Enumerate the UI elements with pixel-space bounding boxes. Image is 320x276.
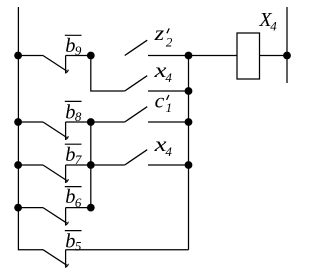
contact b8 tick [66,136,68,139]
node: right bus / z2 [185,52,193,60]
wire b6 out [66,207,91,209]
node: left bus / b8 [14,118,22,126]
contact b7 blade [43,165,67,181]
node: terminal / coil out [283,52,291,60]
label z2' [153,23,173,49]
wire x4 bottom row [91,164,125,166]
wire sub-bus B [90,122,92,208]
contact b7 riser [65,165,67,183]
contact b6 blade [43,208,67,224]
label x4 top [153,60,172,85]
contact b9 riser [65,56,67,74]
contact b6 tick [66,222,68,225]
svg-text:c: c [155,90,165,112]
svg-text:6: 6 [75,195,82,210]
wire b7 out [66,164,91,166]
wire x4 bottom out [148,164,189,166]
contact b9 [18,55,43,57]
contact c1 blade [125,107,148,122]
node: right bus / x4 bottom [185,161,193,169]
node: right bus / c1 [185,118,193,126]
wire coil right [260,55,288,57]
svg-text:8: 8 [75,109,82,124]
svg-text:7: 7 [75,152,82,167]
svg-text:4: 4 [165,144,172,159]
svg-text:2: 2 [166,34,173,49]
contact x4 bottom blade [125,150,148,165]
contact b9 blade [43,56,67,72]
contact b5 tick [66,264,68,267]
wire b5 out [66,249,189,251]
node: sub-bus / b9 out [87,52,95,60]
label b9 [65,35,82,58]
contact b7 tick [66,179,68,182]
svg-text:4: 4 [270,19,277,34]
contact b5 blade [43,250,67,266]
right terminal line [286,7,288,83]
contact x4 top blade [125,76,148,91]
svg-text:z: z [153,23,164,45]
contact b5 riser [65,250,67,268]
wire b8 out [66,121,91,123]
contact b8 [18,121,43,123]
left bus [18,7,43,250]
label x4 bottom [153,134,172,159]
wire b9 out [66,55,91,57]
node: sub-bus / b7 out [87,161,95,169]
node: left bus / b6 [14,204,22,212]
contact b7 [18,164,43,166]
label b8 [65,101,82,124]
wire coil left [189,55,238,57]
wire c1 row [91,121,125,123]
svg-text:1: 1 [166,100,173,115]
node: left bus / b7 [14,161,22,169]
label X4 coil [258,9,277,33]
node: right bus / x4 top [185,87,193,95]
svg-text:4: 4 [165,70,172,85]
contact z2 blade [125,40,148,55]
label b5 [65,231,82,254]
label c1' [155,90,172,114]
coil X4 [237,33,260,79]
contact b8 blade [43,122,67,138]
wire sub-bus A [91,56,125,92]
wire c1 out [148,121,189,123]
node: sub-bus / b6 out [87,204,95,212]
contact b9 tick [66,70,68,73]
node: sub-bus / b8 out [87,118,95,126]
label b7 [65,144,82,167]
label b6 [65,186,82,210]
svg-text:5: 5 [75,238,82,253]
right bus [188,56,190,250]
wire x4 top out [148,90,189,92]
contact b6 [18,207,43,209]
contact b6 riser [65,208,67,226]
svg-text:9: 9 [75,43,82,58]
node: left bus / b9 [14,52,22,60]
wire z2 out [148,55,189,57]
contact b8 riser [65,122,67,140]
